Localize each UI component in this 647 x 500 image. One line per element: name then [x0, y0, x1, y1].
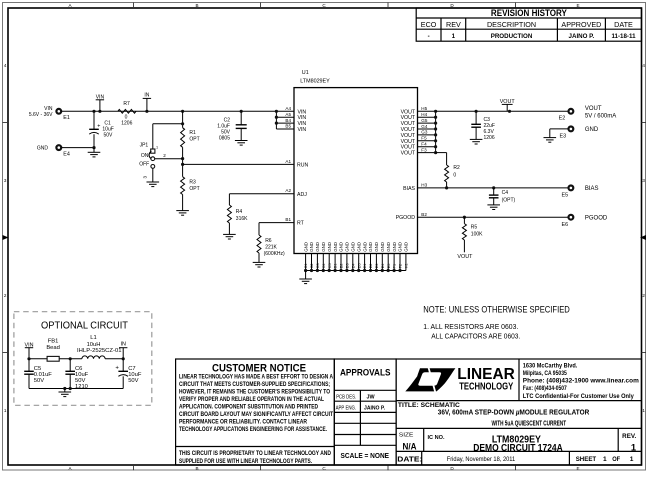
svg-text:GND: GND	[356, 242, 361, 252]
customer notice box	[176, 359, 335, 465]
svg-text:R6: R6	[265, 238, 272, 244]
svg-text:316K: 316K	[236, 216, 248, 222]
svg-text:PCB DES.: PCB DES.	[336, 395, 356, 401]
wire BIAS	[418, 187, 569, 189]
svg-text:(OPT): (OPT)	[502, 197, 516, 203]
resistor R1	[181, 128, 200, 148]
svg-text:1: 1	[631, 441, 636, 452]
svg-text:R7: R7	[123, 101, 130, 107]
svg-text:50V: 50V	[104, 133, 114, 139]
ground C4	[487, 205, 500, 210]
wire optional input rail	[29, 358, 82, 360]
svg-text:U1: U1	[302, 70, 309, 76]
turret E2	[559, 106, 617, 121]
junction IN flag	[145, 110, 148, 113]
svg-text:ON: ON	[141, 153, 149, 159]
svg-text:D2: D2	[340, 263, 344, 268]
wire R1-R3	[182, 147, 184, 176]
svg-text:SHEET: SHEET	[576, 456, 597, 463]
pin B1 RT	[285, 217, 304, 227]
svg-text:3: 3	[642, 178, 645, 183]
svg-text:GND: GND	[351, 242, 356, 252]
ground C1	[88, 148, 101, 157]
turret E3	[560, 126, 599, 139]
svg-text:GND: GND	[345, 242, 350, 252]
svg-text:IC NO.: IC NO.	[428, 435, 445, 441]
svg-text:SUPPLIED FOR USE WITH LINEAR T: SUPPLIED FOR USE WITH LINEAR TECHNOLOGY …	[179, 459, 312, 465]
ground R3	[176, 195, 189, 216]
svg-text:4: 4	[4, 63, 7, 68]
svg-text:TECHNOLOGY: TECHNOLOGY	[459, 381, 513, 392]
svg-text:Phone: (408)432-1900 www.line: Phone: (408)432-1900 www.linear.com	[523, 378, 639, 385]
svg-text:GND: GND	[303, 242, 308, 252]
junction VIN flag	[98, 110, 101, 113]
svg-text:NOTE: UNLESS OTHERWISE SPECIFI: NOTE: UNLESS OTHERWISE SPECIFIED	[423, 304, 570, 314]
junction R5	[463, 216, 466, 219]
ground JP1	[147, 168, 160, 186]
svg-text:B2: B2	[421, 212, 427, 217]
svg-text:221K: 221K	[265, 245, 277, 251]
svg-text:1: 1	[156, 145, 158, 149]
turret E4	[37, 145, 70, 157]
svg-text:2: 2	[642, 293, 645, 298]
svg-text:4: 4	[642, 63, 645, 68]
junction C5	[27, 357, 30, 360]
resistor R7	[118, 101, 136, 127]
jumper JP1	[139, 142, 166, 178]
svg-text:+: +	[97, 124, 100, 130]
wire RT	[259, 223, 294, 235]
net flag IN (optional)	[119, 342, 127, 359]
svg-text:JP1: JP1	[140, 142, 149, 148]
wire optional ground rail	[29, 388, 123, 390]
svg-text:CIRCUIT THAT MEETS CUSTOMER-SU: CIRCUIT THAT MEETS CUSTOMER-SUPPLIED SPE…	[179, 382, 330, 388]
svg-text:GND: GND	[392, 242, 397, 252]
svg-text:2: 2	[163, 153, 166, 158]
svg-text:R3: R3	[189, 180, 196, 186]
svg-text:E2: E2	[559, 116, 566, 122]
svg-text:OF: OF	[612, 456, 620, 463]
note text	[423, 304, 570, 340]
svg-text:1: 1	[642, 408, 645, 413]
svg-text:G4: G4	[421, 124, 428, 129]
capacitor C2	[217, 111, 246, 141]
svg-text:GND: GND	[37, 146, 49, 152]
wire E4-C1	[61, 147, 94, 149]
svg-text:REV: REV	[446, 20, 461, 29]
svg-text:100K: 100K	[471, 232, 483, 238]
svg-text:36V, 600mA STEP-DOWN µMODULE: 36V, 600mA STEP-DOWN µMODULE REGULATOR	[438, 408, 590, 417]
svg-text:E5: E5	[387, 264, 391, 269]
svg-text:APPROVED: APPROVED	[561, 20, 601, 29]
svg-text:D3: D3	[346, 263, 350, 268]
svg-text:0805: 0805	[219, 136, 230, 142]
svg-text:F2: F2	[399, 264, 403, 268]
svg-text:11-18-11: 11-18-11	[611, 33, 636, 40]
svg-text:L1: L1	[90, 335, 96, 341]
svg-text:1: 1	[452, 33, 456, 40]
svg-text:PGOOD: PGOOD	[585, 216, 608, 222]
svg-text:VOUT: VOUT	[457, 254, 473, 260]
inductor L1	[77, 335, 122, 359]
ground R6	[253, 253, 266, 267]
capacitor C6	[65, 359, 88, 390]
wire VIN rail	[61, 110, 276, 112]
svg-text:E5: E5	[562, 193, 569, 199]
svg-text:1. ALL RESISTORS ARE 0603.: 1. ALL RESISTORS ARE 0603.	[423, 324, 518, 331]
svg-text:GND: GND	[309, 242, 314, 252]
title text	[398, 402, 590, 428]
svg-text:JAINO P.: JAINO P.	[569, 33, 595, 40]
svg-text:5.6V - 36V: 5.6V - 36V	[29, 112, 53, 118]
svg-text:GND: GND	[386, 242, 391, 252]
ground optional	[59, 389, 72, 397]
capacitor C7	[115, 359, 141, 389]
net flag IN	[143, 93, 151, 112]
svg-text:TECHNOLOGY APPLICATIONS ENGINE: TECHNOLOGY APPLICATIONS ENGINEERING FOR …	[179, 427, 327, 433]
svg-text:R1: R1	[189, 130, 196, 136]
capacitor C3	[471, 111, 495, 141]
svg-text:E3: E3	[375, 264, 379, 269]
approvals table	[334, 359, 396, 465]
svg-text:OPT: OPT	[189, 186, 199, 192]
capacitor C1	[89, 111, 114, 147]
svg-text:F5: F5	[421, 136, 427, 141]
svg-text:50V: 50V	[128, 378, 138, 384]
svg-text:E2: E2	[369, 264, 373, 269]
svg-text:LTC Confidential-For Customer: LTC Confidential-For Customer Use Only	[523, 393, 634, 400]
svg-text:G3: G3	[421, 130, 428, 135]
svg-text:Friday, November 18, 2011: Friday, November 18, 2011	[447, 456, 516, 463]
svg-text:GND: GND	[362, 242, 367, 252]
svg-text:H4: H4	[421, 112, 427, 117]
net flag VOUT	[500, 99, 516, 111]
GND pins bottom bus	[303, 242, 408, 272]
svg-text:JAINO P.: JAINO P.	[364, 406, 385, 412]
svg-text:E: E	[576, 466, 579, 471]
svg-text:PRODUCTION: PRODUCTION	[491, 33, 533, 40]
wire JP1 pin2	[155, 158, 183, 160]
wire R1 branch	[153, 111, 183, 149]
pin B2 PGOOD	[396, 212, 428, 221]
svg-text:GND: GND	[404, 242, 409, 252]
svg-text:GND: GND	[368, 242, 373, 252]
svg-text:Fax: (408)434-0507: Fax: (408)434-0507	[523, 385, 567, 392]
svg-text:WITH 5uA QUIESCENT CURRENT: WITH 5uA QUIESCENT CURRENT	[492, 419, 567, 428]
svg-text:C4: C4	[322, 263, 326, 268]
svg-text:A5: A5	[285, 112, 291, 117]
svg-text:DATE: DATE	[614, 20, 633, 29]
svg-text:THIS CIRCUIT IS PROPRIETARY TO: THIS CIRCUIT IS PROPRIETARY TO LINEAR TE…	[179, 451, 332, 457]
svg-text:OFF: OFF	[139, 161, 149, 167]
size cell	[399, 433, 637, 455]
optional circuit box	[14, 312, 152, 406]
title block	[396, 359, 641, 465]
junction JP1 branch	[181, 122, 184, 125]
svg-text:HOWEVER, IT REMAINS THE CUSTOM: HOWEVER, IT REMAINS THE CUSTOMER'S RESPO…	[179, 390, 330, 396]
svg-text:3: 3	[4, 178, 7, 183]
wire PGOOD	[418, 216, 569, 218]
svg-text:PERFORMANCE OR RELIABILITY.: PERFORMANCE OR RELIABILITY. CONTACT LINE…	[179, 420, 308, 426]
svg-text:(600KHz): (600KHz)	[264, 251, 285, 257]
ground C2	[235, 141, 248, 146]
svg-text:IHLP-2525CZ-01: IHLP-2525CZ-01	[77, 348, 122, 354]
svg-text:IN: IN	[144, 93, 149, 99]
junction C4	[492, 186, 495, 189]
svg-text:N/A: N/A	[403, 441, 417, 452]
junction C6 bottom	[69, 387, 72, 390]
turret E5	[562, 186, 599, 199]
svg-text:DEMO CIRCUIT 1724A: DEMO CIRCUIT 1724A	[473, 443, 563, 454]
svg-text:B1: B1	[285, 217, 291, 222]
net flag VIN (optional)	[25, 342, 34, 359]
junction RUN branch	[181, 163, 184, 166]
junction JP1 pin2 wire	[181, 157, 184, 160]
svg-text:R5: R5	[471, 225, 478, 231]
svg-text:LTM8029EY: LTM8029EY	[300, 79, 330, 85]
svg-text:APPROVALS: APPROVALS	[340, 367, 391, 377]
svg-text:B4: B4	[285, 118, 291, 123]
svg-text:5V / 600mA: 5V / 600mA	[585, 114, 616, 120]
resistor R6	[257, 235, 285, 257]
svg-text:B5: B5	[285, 124, 291, 129]
resistor R2	[445, 165, 460, 182]
svg-text:APP ENG.: APP ENG.	[336, 406, 357, 412]
svg-text:1: 1	[4, 408, 7, 413]
svg-text:GND: GND	[374, 242, 379, 252]
svg-text:ALL CAPACITORS ARE 0603.: ALL CAPACITORS ARE 0603.	[431, 334, 520, 341]
turret E1	[29, 106, 70, 121]
svg-text:F4: F4	[421, 142, 427, 147]
wire R2 to BIAS	[446, 182, 448, 188]
svg-text:JW: JW	[366, 395, 375, 401]
svg-text:GND: GND	[339, 242, 344, 252]
svg-text:H5: H5	[421, 106, 427, 111]
svg-text:C3: C3	[316, 263, 320, 268]
address block	[523, 363, 639, 400]
svg-text:+: +	[115, 365, 119, 371]
VIN pin bus	[275, 110, 294, 129]
svg-text:H3: H3	[421, 183, 427, 188]
svg-text:R2: R2	[453, 165, 460, 171]
svg-text:BIAS: BIAS	[585, 186, 599, 192]
svg-text:0: 0	[453, 173, 456, 179]
resistor R4	[227, 205, 248, 223]
junction R2	[445, 186, 448, 189]
wire ADJ	[229, 194, 294, 205]
svg-text:E6: E6	[562, 222, 569, 228]
svg-text:D4: D4	[351, 263, 355, 268]
svg-text:RUN: RUN	[297, 162, 308, 168]
revision history table	[416, 8, 641, 41]
wire VOUT rail	[436, 110, 568, 112]
svg-text:VERIFY PROPER AND RELIABLE OPE: VERIFY PROPER AND RELIABLE OPERATION IN …	[179, 397, 324, 403]
svg-text:2: 2	[4, 293, 7, 298]
svg-text:1206: 1206	[484, 135, 495, 141]
svg-text:GND: GND	[315, 242, 320, 252]
svg-text:VOUT: VOUT	[401, 151, 416, 157]
svg-text:C4: C4	[502, 190, 509, 196]
ground C3	[470, 139, 483, 144]
svg-text:FB1: FB1	[48, 338, 59, 344]
svg-text:E4: E4	[381, 264, 385, 269]
svg-text:C2: C2	[310, 263, 314, 268]
junction C1	[92, 110, 95, 113]
svg-text:GND: GND	[380, 242, 385, 252]
svg-text:R4: R4	[236, 209, 243, 215]
junction C2	[240, 110, 243, 113]
svg-text:Milpitas, CA 95035: Milpitas, CA 95035	[523, 370, 567, 377]
svg-text:A2: A2	[285, 188, 291, 193]
svg-text:E4: E4	[63, 151, 70, 157]
pin A2 ADJ	[285, 188, 307, 198]
wire RUN	[183, 163, 294, 165]
svg-text:RT: RT	[297, 221, 305, 227]
junction C7/IN	[122, 357, 125, 360]
svg-text:APPLICATION. COMPONENT SUBSTI: APPLICATION. COMPONENT SUBSTITUTION AND …	[179, 405, 319, 411]
svg-text:10uH: 10uH	[87, 342, 101, 348]
pin A1 RUN	[285, 159, 308, 169]
svg-text:E1: E1	[63, 115, 70, 121]
svg-text:OPTIONAL CIRCUIT: OPTIONAL CIRCUIT	[41, 320, 129, 331]
svg-text:BIAS: BIAS	[403, 186, 415, 192]
svg-text:OPT: OPT	[189, 137, 199, 143]
svg-text:IN: IN	[120, 342, 125, 348]
svg-text:E1: E1	[363, 264, 367, 269]
pin H3 BIAS	[403, 183, 427, 192]
Linear Technology logo	[405, 366, 515, 393]
svg-text:ADJ: ADJ	[297, 192, 307, 198]
junction ground stub	[63, 387, 66, 390]
net flag VIN	[96, 94, 105, 111]
svg-text:F3: F3	[421, 147, 427, 152]
svg-text:ECO: ECO	[421, 20, 437, 29]
resistor R3	[181, 177, 200, 195]
svg-text:C5: C5	[328, 263, 332, 268]
svg-text:VOUT: VOUT	[585, 106, 602, 112]
svg-text:Bead: Bead	[46, 345, 60, 351]
ferrite bead FB1	[46, 338, 60, 361]
svg-text:REVISION HISTORY: REVISION HISTORY	[491, 8, 567, 18]
svg-text:GND: GND	[585, 127, 599, 133]
svg-text:A4: A4	[285, 106, 291, 111]
ground IC	[299, 271, 312, 284]
svg-text:A1: A1	[285, 159, 291, 164]
junction C6	[69, 357, 72, 360]
svg-text:D5: D5	[357, 263, 361, 268]
svg-text:GND: GND	[398, 242, 403, 252]
svg-text:GND: GND	[333, 242, 338, 252]
svg-text:50V: 50V	[34, 378, 44, 384]
svg-text:F1: F1	[393, 264, 397, 268]
svg-text:VIN: VIN	[44, 106, 53, 112]
svg-text:REV.: REV.	[622, 433, 636, 440]
svg-text:-: -	[428, 33, 430, 40]
svg-text:PGOOD: PGOOD	[396, 215, 416, 221]
svg-text:GND: GND	[321, 242, 326, 252]
svg-text:CUSTOMER NOTICE: CUSTOMER NOTICE	[212, 363, 306, 375]
svg-text:3: 3	[143, 176, 148, 179]
svg-text:LINEAR TECHNOLOGY HAS MADE A B: LINEAR TECHNOLOGY HAS MADE A BEST EFFORT…	[179, 375, 334, 381]
svg-text:H1: H1	[405, 263, 409, 268]
wire E3 ground	[550, 129, 569, 138]
svg-text:CIRCUIT BOARD LAYOUT MAY SIGNI: CIRCUIT BOARD LAYOUT MAY SIGNIFICANTLY A…	[179, 412, 333, 418]
wire R2 branch	[436, 153, 447, 165]
date row	[397, 454, 633, 463]
svg-text:B: B	[195, 3, 198, 8]
svg-text:SCALE = NONE: SCALE = NONE	[341, 451, 390, 460]
svg-text:VIN: VIN	[298, 127, 307, 133]
svg-text:D1: D1	[334, 263, 338, 268]
svg-text:DESCRIPTION: DESCRIPTION	[487, 20, 536, 29]
junction C1 bottom	[92, 146, 95, 149]
junction R1 branch	[181, 110, 184, 113]
turret E6	[562, 215, 608, 228]
svg-text:E3: E3	[560, 134, 567, 140]
ground E3	[544, 138, 557, 143]
svg-text:1206: 1206	[121, 121, 132, 127]
svg-text:GND: GND	[327, 242, 332, 252]
junction VOUT flag	[508, 110, 511, 113]
capacitor C4	[489, 188, 516, 205]
capacitor C5	[24, 359, 52, 389]
VOUT pin stubs and bus	[418, 110, 438, 154]
svg-text:G5: G5	[421, 118, 428, 123]
resistor R5	[462, 217, 483, 252]
svg-text:C1: C1	[304, 263, 308, 268]
svg-text:SIZE: SIZE	[399, 433, 414, 439]
ground R4	[223, 223, 236, 239]
svg-text:DATE:: DATE:	[397, 454, 422, 463]
svg-text:B: B	[195, 466, 198, 471]
svg-text:1630 McCarthy Blvd.: 1630 McCarthy Blvd.	[523, 363, 578, 370]
svg-text:1: 1	[603, 456, 607, 463]
junction C3	[475, 110, 478, 113]
svg-text:1: 1	[630, 456, 634, 463]
op-amp module U1 LTM8029EY	[294, 70, 418, 254]
